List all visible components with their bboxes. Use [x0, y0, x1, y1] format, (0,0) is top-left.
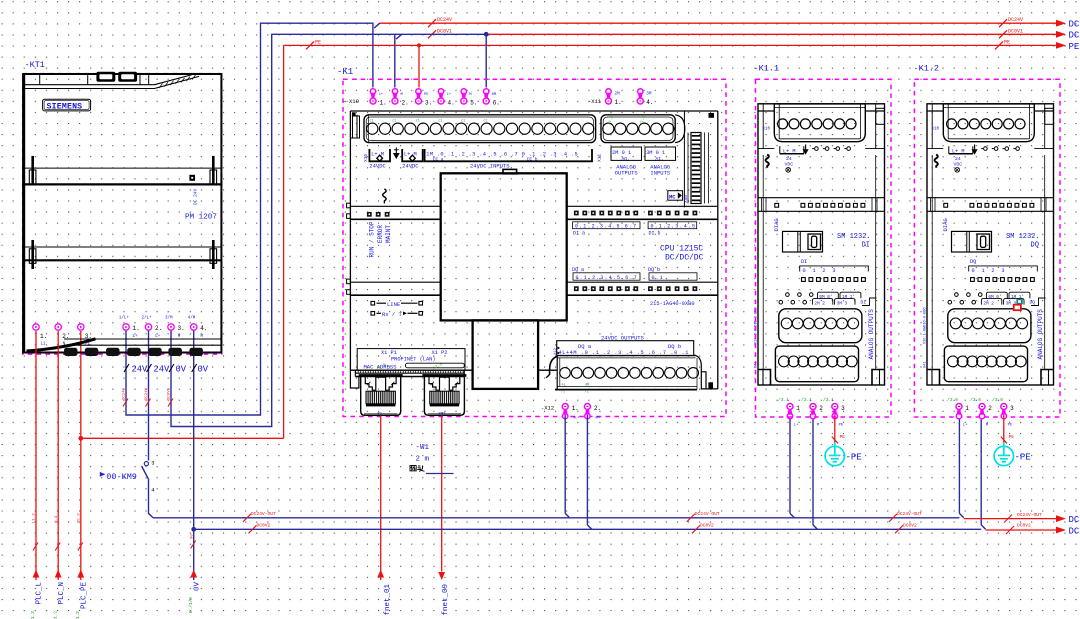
svg-text:24V: 24V	[132, 365, 149, 375]
svg-text:PLC_L: PLC_L	[36, 582, 44, 605]
svg-text:2.: 2.	[155, 325, 162, 332]
svg-text:3M 3: 3M 3	[837, 302, 848, 307]
svg-text:X50: X50	[683, 195, 689, 203]
svg-text:/3.1: /3.1	[823, 397, 834, 403]
svg-text:PE: PE	[85, 343, 91, 347]
svg-text:2 m: 2 m	[416, 456, 430, 464]
svg-text:OUTPUTS: OUTPUTS	[615, 170, 639, 177]
svg-text:/3.1: /3.1	[778, 397, 789, 403]
svg-text:DC24V-OUT: DC24V-OUT	[251, 511, 276, 517]
svg-text:4.: 4.	[448, 100, 455, 107]
svg-text:/1.2: /1.2	[75, 611, 81, 619]
svg-text:c1: c1	[392, 120, 396, 124]
svg-text:PE.3: PE.3	[78, 513, 82, 523]
svg-text:L+: L+	[447, 93, 452, 97]
svg-text:L+: L+	[133, 335, 139, 339]
svg-text:2.: 2.	[402, 100, 409, 107]
svg-text:DI: DI	[801, 259, 807, 265]
svg-text:CPU 1215C: CPU 1215C	[660, 245, 703, 254]
svg-text:/3.6: /3.6	[992, 397, 1003, 403]
svg-text:0.1.2.3.4.5: 0.1.2.3.4.5	[651, 224, 697, 230]
svg-text:DI a: DI a	[433, 158, 444, 163]
svg-text:SIEMENS: SIEMENS	[47, 102, 83, 111]
svg-text:6.: 6.	[493, 100, 500, 107]
svg-text:DIAG: DIAG	[773, 218, 780, 231]
svg-text:3/M: 3/M	[165, 316, 173, 321]
svg-text:DC24V: DC24V	[1008, 17, 1023, 23]
svg-text:c1: c1	[438, 120, 442, 124]
svg-text:/1.2: /1.2	[30, 611, 36, 619]
svg-text:/3.1: /3.1	[801, 397, 812, 403]
svg-text:2/L+: 2/L+	[142, 316, 153, 321]
svg-text:0M 0': 0M 0'	[819, 295, 832, 300]
svg-text:DC24V-OUT: DC24V-OUT	[897, 511, 922, 517]
svg-text:3: 3	[151, 460, 154, 467]
svg-text:PLC_N: PLC_N	[58, 582, 66, 605]
svg-text:0.1.2.3.4.5.6.7: 0.1.2.3.4.5.6.7	[576, 275, 638, 281]
svg-text:1M .0 .1 .2 .3 .4 .5 .6 .7 0: 1M .0 .1 .2 .3 .4 .5 .6 .7 0 .1 .2 .3 .4…	[426, 151, 578, 157]
svg-text:215-1AG40-0XB0: 215-1AG40-0XB0	[650, 301, 695, 307]
svg-text:AQ.: AQ.	[622, 156, 630, 162]
svg-text:4M: 4M	[595, 416, 600, 420]
svg-text:24V: 24V	[154, 365, 171, 375]
svg-text:-W1: -W1	[416, 444, 430, 452]
svg-text:MC: MC	[669, 193, 676, 200]
svg-text:24: 24	[786, 156, 792, 162]
svg-text:MAINT: MAINT	[385, 225, 392, 243]
svg-text:5.: 5.	[470, 100, 477, 107]
svg-text:--X10: --X10	[342, 98, 359, 105]
svg-text:3M: 3M	[646, 92, 652, 97]
svg-text:-X12: -X12	[541, 404, 554, 411]
svg-text:2: 2	[819, 405, 823, 412]
svg-text:DI: DI	[862, 241, 870, 249]
svg-text:00: 00	[190, 534, 194, 539]
svg-text:L+: L+	[379, 93, 384, 97]
svg-text:SM 1232.: SM 1232.	[1006, 233, 1040, 241]
svg-text:0.1: 0.1	[652, 275, 664, 281]
svg-text:1.: 1.	[133, 325, 140, 332]
svg-text:AI.: AI.	[656, 156, 664, 162]
svg-text:2M 0 1: 2M 0 1	[612, 150, 631, 156]
svg-text:-K1.1: -K1.1	[754, 64, 780, 74]
svg-text:DC24V-OUT: DC24V-OUT	[695, 511, 720, 517]
svg-text:DC0V2: DC0V2	[700, 523, 714, 529]
svg-text:DQ a: DQ a	[572, 267, 584, 273]
svg-text:X1 P2: X1 P2	[432, 350, 448, 356]
svg-text:DI b: DI b	[527, 158, 538, 163]
svg-text:RUN / STOP: RUN / STOP	[369, 221, 376, 257]
svg-text:DQ: DQ	[970, 259, 976, 265]
svg-text:c1: c1	[461, 120, 465, 124]
svg-text:DC: DC	[1069, 515, 1080, 525]
svg-text:-X11: -X11	[588, 98, 602, 105]
svg-text:DC0V1: DC0V1	[437, 28, 452, 34]
svg-text:DI b: DI b	[649, 231, 661, 237]
svg-text:fnet_01: fnet_01	[384, 584, 392, 616]
svg-text:SM 1232.: SM 1232.	[837, 233, 871, 241]
svg-text:VDC: VDC	[785, 161, 794, 167]
svg-text:c1: c1	[416, 120, 420, 124]
svg-text:00-KM9: 00-KM9	[106, 472, 137, 482]
svg-text:fnet_09: fnet_09	[442, 584, 450, 616]
svg-text:DC0V1: DC0V1	[168, 387, 172, 400]
svg-text:PE: PE	[839, 424, 844, 428]
svg-text:L+: L+	[155, 335, 161, 339]
svg-text:-K1: -K1	[337, 67, 353, 77]
svg-text:L+ M: L+ M	[783, 148, 795, 154]
svg-text:DC 24V: DC 24V	[193, 188, 199, 205]
svg-text:X10: X10	[363, 154, 369, 162]
svg-text:2.: 2.	[594, 405, 601, 412]
svg-text:X10: X10	[763, 128, 771, 132]
svg-text:2M: 2M	[615, 92, 621, 97]
svg-text:DC: DC	[1069, 31, 1080, 41]
svg-text:-PE: -PE	[846, 452, 862, 462]
svg-text:4M: 4M	[585, 383, 589, 387]
svg-text:1M 1': 1M 1'	[842, 295, 855, 300]
svg-text:3.: 3.	[425, 100, 432, 107]
svg-text:DC0V2: DC0V2	[1017, 523, 1031, 529]
svg-text:4L+: 4L+	[573, 416, 581, 420]
svg-text:DC0V2: DC0V2	[903, 523, 917, 529]
svg-text:1.: 1.	[40, 333, 47, 340]
svg-text:PE: PE	[840, 434, 846, 440]
svg-text:DC24V-OUT: DC24V-OUT	[1017, 512, 1042, 518]
svg-text:2M 2: 2M 2	[814, 302, 825, 307]
svg-text:X1 P1: X1 P1	[381, 350, 397, 356]
svg-text:4.: 4.	[646, 99, 653, 106]
svg-text:0V: 0V	[176, 365, 187, 375]
svg-text:1.: 1.	[615, 99, 622, 106]
svg-text:Rx / T: Rx / T	[382, 311, 403, 318]
svg-text:PE: PE	[315, 39, 321, 45]
svg-text:L+: L+	[794, 424, 799, 428]
svg-text:4.: 4.	[200, 325, 207, 332]
svg-text:1: 1	[796, 405, 800, 412]
svg-text:3.: 3.	[85, 333, 92, 340]
svg-text:-KT1: -KT1	[25, 60, 45, 70]
svg-text:PE: PE	[1069, 42, 1080, 52]
svg-text:ANALOG OUTPUTS: ANALOG OUTPUTS	[868, 309, 875, 360]
svg-text:PE: PE	[1004, 39, 1010, 45]
svg-text:PROFINET (LAN): PROFINET (LAN)	[391, 356, 436, 362]
svg-text:/3.6: /3.6	[970, 397, 981, 403]
svg-text:1/L+: 1/L+	[119, 316, 130, 321]
svg-text:DC/DC/DC: DC/DC/DC	[665, 254, 704, 263]
svg-text:INPUTS: INPUTS	[650, 170, 671, 177]
svg-text:24VDC: 24VDC	[402, 163, 419, 170]
svg-text:ANALOG OUTPUTS: ANALOG OUTPUTS	[1037, 309, 1044, 360]
svg-text:4L: 4L	[562, 383, 566, 387]
svg-text:DQ b: DQ b	[668, 343, 681, 350]
svg-text:4/M: 4/M	[188, 316, 196, 321]
svg-text:DI a: DI a	[573, 231, 585, 237]
svg-text:24VDC: 24VDC	[369, 163, 386, 170]
svg-text:24VDC INPUTS: 24VDC INPUTS	[470, 163, 510, 170]
svg-text:0 1 2 3: 0 1 2 3	[803, 268, 838, 274]
svg-text:/1.2: /1.2	[52, 611, 58, 619]
svg-text:/1: /1	[561, 390, 565, 395]
svg-text:0V: 0V	[198, 365, 209, 375]
svg-text:DC0V1: DC0V1	[1008, 28, 1023, 34]
svg-text:DQ: DQ	[1030, 300, 1036, 306]
svg-text:0V: 0V	[194, 582, 202, 592]
svg-text:DC: DC	[1069, 20, 1080, 30]
svg-text:/3.6: /3.6	[947, 397, 958, 403]
svg-text:PE: PE	[424, 93, 429, 97]
svg-text:DI: DI	[861, 300, 867, 306]
svg-text:DQ: DQ	[1031, 241, 1039, 249]
svg-text:DC: DC	[1069, 526, 1080, 536]
svg-text:PM 1207: PM 1207	[185, 213, 217, 221]
svg-text:0.1.2.3.4.5.6.7: 0.1.2.3.4.5.6.7	[575, 224, 637, 230]
svg-text:c1: c1	[483, 120, 487, 124]
svg-text:X12: X12	[554, 347, 558, 355]
svg-text:1.: 1.	[572, 405, 579, 412]
svg-text:3M 0 1: 3M 0 1	[646, 150, 665, 156]
svg-text:1.: 1.	[380, 100, 387, 107]
svg-text:L1: L1	[41, 343, 47, 347]
svg-text:4L+4M .0 .1 .2 .3 .4 .5 .6 .7: 4L+4M .0 .1 .2 .3 .4 .5 .6 .7 .0 .1	[559, 350, 690, 356]
svg-text:X11: X11	[597, 154, 603, 162]
svg-text:DQ a: DQ a	[578, 343, 592, 350]
svg-text:c1: c1	[370, 120, 374, 124]
svg-text:DC24V: DC24V	[123, 387, 127, 400]
svg-text:-K1.2: -K1.2	[914, 64, 940, 74]
svg-text:2.: 2.	[62, 333, 69, 340]
svg-text:3: 3	[841, 405, 845, 412]
svg-text:0M: 0M	[492, 93, 497, 97]
svg-text:DC24V: DC24V	[437, 17, 452, 23]
svg-text:LINE: LINE	[387, 301, 401, 308]
svg-text:0:/1/0: 0:/1/0	[188, 597, 194, 614]
svg-text:DC24V: DC24V	[145, 387, 149, 400]
svg-text:/1: /1	[585, 390, 589, 395]
svg-text:DC0V2: DC0V2	[257, 523, 271, 529]
svg-text:ERROR: ERROR	[377, 225, 384, 243]
svg-text:DQ b: DQ b	[648, 267, 660, 273]
svg-text:PLC_PE: PLC_PE	[81, 582, 89, 610]
svg-text:3.: 3.	[178, 325, 185, 332]
